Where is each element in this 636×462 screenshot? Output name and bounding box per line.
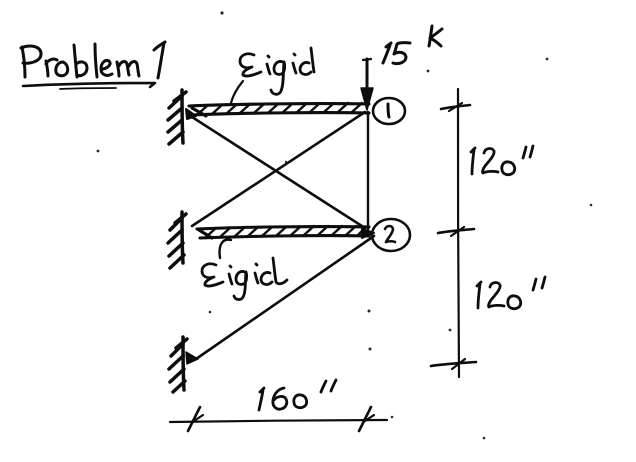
bottom dimension line <box>170 420 387 422</box>
top tick <box>441 105 470 109</box>
P <box>22 47 25 77</box>
label "Rigid" (top) <box>240 48 314 94</box>
e <box>101 60 112 75</box>
right tick <box>359 407 371 431</box>
diagonal member S1 to node 2 <box>192 117 365 228</box>
1 <box>158 43 164 78</box>
label "Rigid" (bottom) <box>202 258 287 300</box>
title underline <box>23 83 155 87</box>
double prime <box>523 147 526 158</box>
m <box>117 62 119 76</box>
double prime <box>533 279 536 290</box>
b <box>74 45 77 77</box>
left tick <box>188 407 200 431</box>
o <box>56 62 68 76</box>
l <box>95 44 97 77</box>
middle wall support S2 <box>168 212 186 268</box>
rigid bar 1 (top, hatched) <box>189 104 369 116</box>
load arrow (15k) <box>366 59 369 96</box>
rigid bar 2 (hatched) <box>197 227 369 238</box>
top wall support S1 <box>168 90 186 144</box>
title "Problem 1" <box>21 42 165 78</box>
node 2 circle <box>372 219 410 251</box>
joint blob at node2 end <box>362 229 374 238</box>
double prime <box>321 381 326 392</box>
bottom tick <box>431 362 476 366</box>
bottom wall support S3 <box>169 337 187 392</box>
dimension text "160 in" (bottom) <box>259 380 336 410</box>
superscript k <box>429 26 432 46</box>
middle tick <box>438 229 474 233</box>
leader hook for bottom Rigid <box>220 240 231 258</box>
leader arc for top Rigid <box>231 81 243 103</box>
joint blob at S3 <box>186 352 198 364</box>
joint blob at S1 <box>186 109 196 119</box>
node 2 digit <box>385 226 395 242</box>
scan speckles <box>97 11 593 439</box>
diagonal member S3 to node 2 <box>196 236 374 359</box>
r <box>46 61 48 76</box>
right dimension line <box>458 89 459 377</box>
dimension text "120 in" (lower) <box>477 277 545 309</box>
node 1 circle <box>373 98 405 124</box>
vertical member node1-node2 <box>367 112 369 233</box>
load label "15 k" <box>383 26 442 64</box>
diagonal member node 1 to S2 <box>192 112 365 226</box>
node 1 digit <box>388 104 389 117</box>
dimension text "120 in" (upper) <box>471 146 533 175</box>
